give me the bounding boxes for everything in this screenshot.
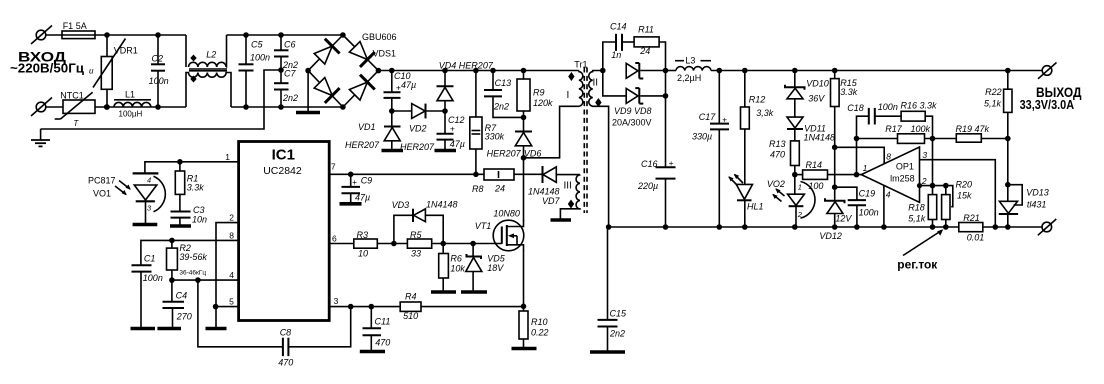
capacitor C8 470 (wire pin4 to pin3)	[198, 280, 351, 356]
diode VD4 HER207	[437, 71, 454, 112]
svg-text:2,2µH: 2,2µH	[677, 73, 701, 83]
svg-text:47µ: 47µ	[401, 80, 416, 90]
op-amp OP1 lm258	[861, 147, 919, 202]
node R1 top	[177, 159, 183, 165]
resistor R2 39-56k	[167, 240, 178, 280]
polarity diamond L2 bottom	[190, 76, 196, 83]
svg-text:F1 5A: F1 5A	[63, 21, 87, 31]
svg-text:C11: C11	[375, 317, 391, 327]
svg-text:R19 47k: R19 47k	[956, 124, 990, 134]
svg-text:18V: 18V	[487, 263, 504, 273]
svg-text:R16 3.3k: R16 3.3k	[901, 101, 938, 111]
svg-text:C18: C18	[847, 103, 864, 113]
node R22/R19 junction	[1005, 136, 1011, 142]
svg-text:C17: C17	[699, 112, 717, 122]
svg-text:36-46кГц: 36-46кГц	[179, 270, 206, 277]
svg-text:100n: 100n	[143, 273, 163, 283]
svg-text:C5: C5	[251, 40, 263, 50]
svg-text:33: 33	[411, 249, 421, 259]
svg-text:470: 470	[770, 150, 785, 160]
connector J4 (output -)	[1038, 219, 1057, 235]
svg-text:1n: 1n	[611, 50, 621, 60]
node R2/C4/pin4 junction	[169, 277, 175, 283]
transformer winding III (aux)	[560, 175, 580, 219]
node C9 top	[348, 172, 354, 178]
node R9/C13/VD6 junction	[521, 115, 527, 121]
svg-text:VDS1: VDS1	[373, 49, 397, 59]
capacitor C4 270	[163, 280, 185, 327]
svg-text:C6: C6	[284, 40, 296, 50]
resistor R3 10	[354, 239, 408, 248]
ground (C4 bottom)	[157, 327, 181, 331]
svg-text:C9: C9	[361, 176, 373, 186]
svg-text:330k: 330k	[485, 131, 505, 141]
svg-text:3,3k: 3,3k	[756, 108, 774, 118]
svg-text:рег.ток: рег.ток	[897, 257, 938, 271]
wire earth line to C6/C7 midpoint	[41, 70, 281, 129]
svg-text:270: 270	[176, 312, 192, 322]
capacitor C6	[274, 35, 289, 83]
resistor R17 100k	[857, 134, 957, 144]
svg-text:C3: C3	[193, 205, 205, 215]
svg-text:100n: 100n	[149, 76, 169, 86]
capacitor C17 330u	[710, 71, 729, 228]
node VD4/C12 junction	[442, 108, 448, 114]
svg-text:R3: R3	[357, 230, 369, 240]
resistor R10 0.22	[519, 311, 528, 347]
ground (bridge negative)	[296, 71, 320, 113]
pin 2 wire (VFB to gnd)	[216, 223, 239, 307]
svg-text:VD3: VD3	[392, 200, 410, 210]
node secondary top junction	[600, 68, 606, 74]
svg-text:2: 2	[921, 176, 927, 186]
node R18 bottom	[930, 224, 936, 230]
bridge diode D-bottomleft	[314, 78, 332, 96]
svg-text:24: 24	[494, 184, 505, 194]
transformer winding II (secondary)	[589, 71, 609, 228]
capacitor C15 2n2	[598, 227, 618, 351]
polarity diamond L2 top	[190, 55, 196, 62]
node R3/R5/VD3 junction	[391, 241, 397, 247]
resistor R21 0.01 (current shunt)	[959, 223, 1042, 232]
capacitor C12 47u	[437, 111, 454, 150]
capacitor C14 1n	[616, 34, 634, 51]
svg-text:1N4148: 1N4148	[426, 200, 458, 210]
wire secondary + rail	[711, 70, 1042, 72]
svg-text:C13: C13	[495, 78, 512, 88]
svg-text:12V: 12V	[835, 213, 852, 223]
svg-text:10k: 10k	[450, 264, 465, 274]
svg-text:VO1: VO1	[93, 189, 111, 199]
wire drain to primary winding	[524, 106, 579, 158]
LED HL1	[728, 174, 752, 227]
shunt reference VD13 tl431	[999, 185, 1022, 227]
node C19 bottom	[854, 224, 860, 230]
ground (C11 bottom)	[360, 350, 385, 354]
wire op-amp V+ (pin 8)	[835, 147, 885, 163]
node gate/VD5 junction	[470, 241, 476, 247]
svg-text:R18: R18	[908, 202, 925, 212]
node (L1 left junction)	[104, 104, 110, 110]
node C5 bottom	[243, 104, 249, 110]
resistor R16 3.3k	[901, 111, 932, 194]
node C8 right riser junction	[348, 304, 354, 310]
diode VD3 1N4148	[394, 209, 443, 244]
svg-text:510: 510	[403, 311, 418, 321]
choke L2	[186, 35, 231, 107]
wire HV+ rail (bridge to transformer)	[378, 70, 579, 72]
svg-text:R22: R22	[985, 87, 1002, 97]
resistor R7 330k	[470, 71, 482, 175]
capacitor C2	[151, 35, 165, 107]
capacitor C10 47u	[384, 71, 401, 112]
svg-text:0.22: 0.22	[531, 328, 549, 338]
node (C2 bottom junction)	[155, 104, 161, 110]
svg-text:4: 4	[147, 176, 151, 185]
inductor L1 100uH	[114, 100, 151, 107]
svg-text:C14: C14	[610, 22, 627, 32]
svg-text:UC2842: UC2842	[263, 165, 302, 177]
resistor R14 100	[795, 170, 862, 179]
node (VDR1 bottom junction)	[104, 104, 110, 110]
svg-text:u: u	[89, 67, 94, 76]
node R5/R6/VD3 junction	[440, 241, 446, 247]
resistor R1 3.3k	[175, 162, 184, 212]
svg-text:II: II	[593, 78, 599, 89]
svg-text:R4: R4	[405, 292, 417, 302]
svg-text:+: +	[722, 114, 727, 124]
node VD9 output junction	[663, 68, 669, 74]
svg-text:R6: R6	[450, 254, 462, 264]
node C10 top	[389, 68, 395, 74]
wire bottom rail L2 to bridge	[231, 106, 343, 108]
svg-text:39-56k: 39-56k	[179, 252, 207, 262]
ground (C3 bottom)	[170, 224, 191, 228]
svg-text:120k: 120k	[533, 98, 553, 108]
svg-text:tl431: tl431	[1027, 200, 1047, 210]
svg-text:7: 7	[331, 162, 336, 172]
svg-text:+: +	[352, 177, 357, 187]
node R21 right / pin3 riser	[993, 224, 999, 230]
node VD12 bottom	[832, 224, 838, 230]
node R22 top	[1005, 68, 1011, 74]
svg-text:R17: R17	[885, 124, 903, 134]
node VD12 top junction	[832, 184, 838, 190]
resistor R12 3.3k	[741, 71, 750, 185]
svg-text:R20: R20	[956, 180, 973, 190]
svg-text:100n: 100n	[859, 208, 879, 218]
capacitor C16 220u	[656, 167, 676, 227]
node bridge top corner	[340, 32, 346, 38]
svg-text:R13: R13	[769, 139, 786, 149]
resistor R5 33	[407, 239, 473, 248]
node C17 bottom	[717, 224, 723, 230]
resistor R18 5.1k	[928, 195, 936, 227]
ground (VD5 bottom)	[461, 290, 487, 294]
node source/R10/R4 junction	[521, 304, 527, 310]
ground (C12 bottom)	[435, 149, 457, 153]
pin 5 wire (GND)	[216, 306, 239, 308]
node pin5 ground junction	[213, 304, 219, 310]
diode VD11 1N4148	[787, 117, 803, 141]
svg-text:VD4 HER207: VD4 HER207	[439, 61, 494, 71]
svg-text:5,1k: 5,1k	[908, 213, 926, 223]
svg-text:VD1: VD1	[358, 122, 376, 132]
svg-text:2n2: 2n2	[282, 93, 298, 103]
ground (C15 bottom)	[590, 350, 625, 354]
node C6 top	[278, 32, 284, 38]
svg-text:1N4148: 1N4148	[804, 133, 836, 143]
node VD4 top	[442, 68, 448, 74]
node pin8 tap on R15 riser	[832, 145, 838, 151]
fuse F1 5A	[62, 31, 95, 39]
node TL431 ref junction	[1005, 182, 1011, 188]
node C11 top	[369, 304, 375, 310]
svg-text:HER207: HER207	[487, 149, 522, 159]
wire top rail L2 to bridge	[227, 34, 343, 36]
svg-text:220µ: 220µ	[637, 181, 658, 191]
svg-text:IC1: IC1	[272, 147, 295, 164]
svg-text:HER207: HER207	[400, 142, 435, 152]
wire bottom AC rail	[95, 106, 186, 108]
svg-text:100µH: 100µH	[119, 110, 143, 119]
svg-text:470: 470	[278, 358, 293, 368]
bridge rectifier GBU606 VDS1	[308, 35, 378, 107]
svg-text:10N80: 10N80	[493, 209, 520, 219]
node C8 riser junction	[195, 277, 201, 283]
svg-text:Tr1: Tr1	[574, 59, 587, 69]
svg-text:VO2: VO2	[767, 179, 785, 189]
ground (C9 bottom)	[340, 202, 362, 206]
pin 4 wire (RT/CT)	[172, 279, 239, 281]
svg-text:330µ: 330µ	[692, 132, 712, 142]
node pin1/R14/feedback junction	[854, 172, 860, 178]
svg-text:3: 3	[334, 296, 339, 306]
wire pin 3 (non-inverting)	[920, 160, 996, 227]
node C7 bottom	[278, 104, 284, 110]
connector J2 (line input bottom)	[31, 98, 63, 117]
svg-text:VD2: VD2	[409, 123, 427, 133]
connector J1 (line input top)	[31, 26, 62, 45]
svg-text:3.3k: 3.3k	[840, 87, 858, 97]
transformer winding I (primary)	[579, 71, 583, 107]
inductor L3 2.2uH	[666, 61, 712, 71]
svg-text:5,1k: 5,1k	[984, 98, 1002, 108]
node C10/VD1/VD2 junction	[389, 108, 395, 114]
resistor R8 24	[484, 169, 542, 180]
svg-text:VDR1: VDR1	[114, 46, 138, 56]
wire output riser to C16	[665, 71, 667, 168]
ground (pin 5)	[206, 307, 227, 329]
svg-text:33,3V/3.0A: 33,3V/3.0A	[1020, 98, 1075, 112]
arrow (reg tok pointer)	[903, 229, 943, 255]
svg-text:HER207: HER207	[345, 140, 380, 150]
ground (winding III bottom)	[551, 218, 572, 222]
wire source riser	[523, 250, 525, 311]
svg-text:C7: C7	[284, 69, 296, 79]
ground (C1 bottom)	[131, 327, 156, 331]
ground (R6 bottom)	[431, 290, 456, 294]
svg-text:3: 3	[922, 150, 927, 160]
bridge diode D-topleft	[314, 46, 332, 64]
capacitor C9 47u	[342, 174, 361, 202]
svg-text:R14: R14	[806, 160, 823, 170]
connector J3 (output +)	[1038, 63, 1057, 79]
pin 7 wire (VCC)	[329, 173, 484, 175]
svg-text:VD10: VD10	[806, 79, 829, 89]
svg-text:15k: 15k	[957, 191, 972, 201]
ground (VD1 anode)	[382, 149, 404, 153]
node R12 top	[742, 68, 748, 74]
node C6/C7 midpoint	[278, 67, 284, 73]
node R20 bottom	[943, 224, 949, 230]
node C17 top	[717, 68, 723, 74]
diode VD6 HER207	[515, 117, 532, 157]
resistor R6 10k	[439, 244, 449, 291]
node VD13 bottom	[1005, 224, 1011, 230]
svg-text:C8: C8	[280, 328, 292, 338]
svg-text:1: 1	[863, 163, 868, 173]
svg-text:lm258: lm258	[890, 173, 915, 183]
svg-text:2n2: 2n2	[493, 102, 509, 112]
zener VD12 12V	[825, 198, 845, 227]
node pin2/R18 junction	[930, 183, 936, 189]
resistor R22 5.1k	[1004, 71, 1012, 202]
svg-text:100n: 100n	[250, 53, 270, 63]
svg-text:HL1: HL1	[747, 202, 764, 212]
svg-text:C4: C4	[176, 291, 188, 301]
node bridge bottom corner	[340, 104, 346, 110]
ground (R10 bottom)	[512, 347, 537, 351]
node R17 left junction	[854, 136, 860, 142]
node R15 top	[832, 68, 838, 74]
zener VD10 36V	[785, 71, 805, 118]
svg-text:36V: 36V	[808, 93, 825, 103]
svg-text:C16: C16	[641, 159, 658, 169]
svg-text:5: 5	[229, 297, 234, 307]
svg-text:I: I	[567, 90, 570, 101]
varistor VDR1	[93, 35, 126, 107]
node rail II bottom	[606, 224, 612, 230]
svg-text:4: 4	[229, 270, 234, 280]
transformer Tr1 core	[584, 68, 587, 214]
pin 8 wire (VREF)	[141, 240, 239, 265]
pin 1 wire (COMP)	[145, 162, 239, 174]
polarity diamond winding II	[595, 98, 601, 107]
svg-text:VD6: VD6	[524, 149, 542, 159]
node pin2 at edge	[917, 183, 922, 188]
svg-text:L1: L1	[125, 90, 135, 100]
svg-text:C19: C19	[859, 189, 876, 199]
node R9 top	[521, 68, 527, 74]
capacitor C3 10n	[171, 212, 191, 226]
diode VD8	[603, 71, 666, 104]
wire snubber riser / C14 R11 branch	[603, 42, 616, 71]
bridge diode D-topright	[349, 42, 367, 60]
svg-text:100k: 100k	[911, 124, 931, 134]
svg-text:+: +	[450, 123, 455, 133]
node R2 top	[169, 238, 175, 244]
node C16 bottom	[663, 224, 669, 230]
potentiometer R20 15k	[942, 186, 950, 227]
capacitor C11 470	[363, 307, 382, 350]
svg-text:R10: R10	[531, 317, 548, 327]
capacitor C13 2n2	[484, 71, 524, 118]
polarity diamond winding I	[568, 72, 574, 81]
optocoupler VO2 (LED side)	[772, 175, 815, 227]
node (VDR1 top junction)	[104, 32, 110, 38]
node VD8 output junction	[663, 93, 669, 99]
svg-text:2: 2	[797, 210, 803, 219]
feedback network wire	[857, 116, 869, 174]
svg-text:3.3k: 3.3k	[187, 183, 205, 193]
node pin2/R20 junction	[943, 183, 949, 189]
resistor R4 510	[400, 302, 523, 311]
wire top AC rail	[95, 34, 186, 36]
node R7 bottom / R8 left junction	[473, 172, 479, 178]
wire pin 2 (inverting)	[920, 186, 953, 207]
node R7 top	[473, 68, 479, 74]
svg-text:10: 10	[358, 249, 368, 259]
svg-text:100: 100	[808, 181, 823, 191]
node C5 top	[243, 32, 249, 38]
svg-text:R21: R21	[963, 213, 980, 223]
svg-text:8: 8	[886, 152, 891, 162]
svg-text:VD7: VD7	[542, 196, 561, 206]
svg-text:47µ: 47µ	[355, 193, 370, 203]
svg-text:~220В/50Гц: ~220В/50Гц	[10, 62, 84, 76]
resistor R9 120k	[517, 71, 530, 118]
node VD10 top	[792, 68, 798, 74]
resistor R15 3.3k	[831, 71, 840, 201]
bridge diode D-bottomright	[349, 82, 367, 100]
pin 3 wire (CS)	[329, 306, 400, 308]
svg-text:2n2: 2n2	[609, 329, 625, 339]
wire secondary - rail	[609, 226, 959, 228]
node R17/R16/R19 junction	[930, 136, 936, 142]
svg-text:1: 1	[225, 152, 230, 162]
thermistor NTC1	[55, 92, 95, 119]
pin 6 wire (OUT)	[329, 243, 354, 245]
svg-text:VD9 VD8: VD9 VD8	[614, 106, 652, 116]
VO1 light arrows	[115, 181, 131, 196]
svg-text:VD12: VD12	[819, 231, 842, 241]
diode VD2 HER207	[392, 104, 445, 119]
resistor R13 470	[791, 141, 800, 175]
node pin4 bottom	[881, 224, 887, 230]
node C13 top	[490, 68, 496, 74]
svg-text:III: III	[564, 181, 572, 192]
svg-text:20A/300V: 20A/300V	[612, 117, 652, 127]
svg-text:R12: R12	[749, 95, 766, 105]
svg-text:1: 1	[798, 182, 802, 191]
svg-text:24: 24	[639, 46, 650, 56]
optocoupler VO1 PC817 (photodetector)	[133, 173, 166, 223]
node (C2 top junction)	[155, 32, 161, 38]
diode VD1 HER207	[384, 111, 401, 150]
wire pin 4 to rail	[883, 186, 885, 227]
capacitor C5	[239, 35, 254, 107]
svg-text:100n: 100n	[878, 102, 898, 112]
op-amp-controller IC1 UC2842	[239, 142, 330, 321]
capacitor C19 100n	[835, 187, 866, 227]
svg-text:R11: R11	[638, 25, 654, 35]
svg-text:OP1: OP1	[896, 161, 914, 171]
node HL1 bottom	[742, 224, 748, 230]
svg-text:L3: L3	[685, 56, 695, 66]
svg-text:GBU606: GBU606	[362, 32, 397, 42]
svg-text:C2: C2	[152, 54, 164, 64]
